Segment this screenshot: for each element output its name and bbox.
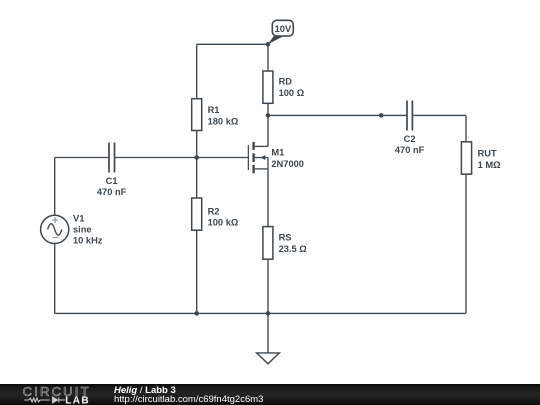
capacitor C1 [109, 143, 115, 173]
svg-text:V1: V1 [73, 214, 84, 224]
svg-text:RD: RD [279, 76, 293, 86]
svg-text:470 nF: 470 nF [395, 145, 425, 155]
svg-text:sine: sine [73, 224, 92, 234]
resistor RD [263, 71, 273, 103]
node mid wire [379, 113, 384, 118]
svg-text:R1: R1 [208, 105, 220, 115]
logo CircuitLab [22, 384, 96, 405]
wire R1 top lead [196, 44, 198, 98]
node bottom RS [266, 311, 271, 316]
svg-text:R2: R2 [208, 206, 220, 216]
svg-text:10V: 10V [275, 24, 292, 34]
svg-text:M1: M1 [271, 148, 284, 158]
capacitor C2 [407, 101, 412, 131]
wire C2 right plate to right column [413, 114, 466, 116]
footer bar [0, 384, 540, 405]
node drain [266, 113, 271, 118]
wire source to RS top [267, 169, 269, 227]
svg-text:LAB: LAB [65, 395, 90, 405]
svg-text:RS: RS [279, 233, 292, 243]
transistor M1 bulk arrow [260, 155, 265, 160]
resistor RUT [461, 142, 471, 174]
wire right column down to RUT top [465, 115, 467, 141]
svg-text:C1: C1 [106, 176, 118, 186]
svg-text:2N7000: 2N7000 [271, 159, 304, 169]
flag 10V bubble [272, 20, 293, 36]
source V1 plus mark [52, 217, 58, 223]
ground [257, 353, 280, 364]
svg-text:470 nF: 470 nF [97, 187, 127, 197]
wire left column V1 top [54, 158, 56, 216]
svg-text:100 Ω: 100 Ω [279, 88, 305, 98]
wire R1 bottom to gate node [196, 131, 198, 158]
flag 10V tail [268, 36, 284, 44]
wire left column V1 bottom [54, 244, 56, 314]
source V1 [41, 215, 69, 243]
wire drain node to MOSFET drain [267, 115, 269, 146]
wire gate node to R2 top [196, 158, 198, 199]
wire RUT bottom to bottom rail [465, 174, 467, 313]
wire RD bottom to drain node [267, 103, 269, 115]
svg-text:10 kHz: 10 kHz [73, 235, 103, 245]
svg-text:1 MΩ: 1 MΩ [478, 160, 501, 170]
resistor R1 [192, 99, 202, 131]
transistor M1 [248, 142, 268, 174]
svg-text:C2: C2 [404, 134, 416, 144]
wire RS bottom to bottom rail [267, 259, 269, 313]
wire bottom rail [55, 312, 466, 314]
resistor RS [263, 227, 273, 260]
wire C1 left lead [55, 157, 108, 159]
wire C1 right plate to gate node [115, 157, 196, 159]
node top 10V [266, 42, 271, 47]
wire top rail R1 to node [197, 43, 268, 45]
footer url [114, 395, 263, 405]
wire ground lead [267, 313, 269, 353]
resistor R2 [192, 198, 202, 230]
wire gate node to MOSFET gate [197, 157, 248, 159]
wire R2 bottom to bottom rail [196, 230, 198, 313]
wire drain node to C2 left plate [268, 114, 406, 116]
source V1 minus mark [53, 237, 59, 239]
footer title [114, 386, 176, 396]
wire RD top lead [267, 44, 269, 71]
svg-text:RUT: RUT [478, 148, 497, 158]
svg-text:100 kΩ: 100 kΩ [208, 218, 239, 228]
node gate [194, 155, 199, 160]
svg-text:23.5 Ω: 23.5 Ω [279, 244, 308, 254]
node bottom R2 [194, 311, 199, 316]
svg-text:180 kΩ: 180 kΩ [208, 117, 239, 127]
